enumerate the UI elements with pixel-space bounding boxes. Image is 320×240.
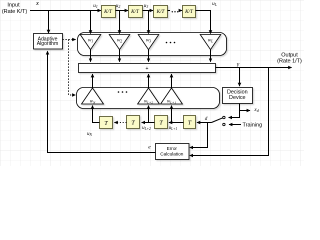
svg-text:wL+2: wL+2 [144,100,153,105]
training input wire [229,124,241,126]
delay box T4 [184,116,196,129]
delay box T2 [127,116,140,129]
wire T4 to T3 [169,122,184,124]
svg-text:Error: Error [167,146,178,151]
wire summer output y line [216,67,292,69]
multiplier w1 [80,35,101,50]
wire w3 to summer [148,50,150,62]
node d label [205,116,208,122]
svg-text:Algorithm: Algorithm [37,41,59,47]
multiplier w3 [138,35,159,50]
wire Z3 to Z4 with ellipsis [168,11,183,13]
input label [2,3,28,16]
delay box Z4 K/T [183,6,196,18]
svg-text:wL+1: wL+1 [167,100,176,105]
wire w1 to summer [90,50,92,62]
node xd label [253,107,258,113]
svg-text:Training: Training [243,122,263,128]
wire decision output to xd [240,104,251,111]
summer bar [79,64,216,73]
wire tap u3 down [148,11,150,34]
node uN label [87,132,93,137]
wire Z4 to wL tap [196,11,211,34]
adaptive algorithm box [34,34,63,50]
wire wL+2 to summer [148,74,150,88]
dashed control wire to feedback taps [69,40,76,96]
delay box T1 [100,117,113,129]
node uL+1 label [169,126,178,131]
switch contacts and arm [212,116,226,125]
wire wN to summer [92,74,94,88]
wire tap u2 down [119,11,121,34]
node u3 label [144,3,149,9]
output label [277,53,302,65]
svg-text:uL+2: uL+2 [142,126,151,131]
svg-text:x: x [35,0,39,7]
error calculation box [156,144,190,160]
multiplier w2 [109,35,130,50]
wire decision branch to switch contact [229,111,240,118]
wire tap uL+1 up [171,106,173,123]
svg-text:Device: Device [229,95,245,101]
decision device box [223,88,253,104]
feedback taps container [77,88,220,109]
multiplier wL [200,35,221,50]
svg-text:d: d [205,116,208,122]
feedback multiplier wN [82,88,104,105]
delay box Z3 K/T [154,6,168,18]
wire wL+1 to summer [171,74,173,88]
feedback multiplier wL+1 [161,88,183,105]
node u2 label [116,3,121,9]
wire e to adaptive algorithm [48,51,156,152]
svg-text:Calculation: Calculation [160,152,184,157]
node uL+2 label [142,126,151,131]
wire wL to summer [210,50,212,62]
wire T2 to T1 dotted [114,122,126,124]
delay box Z1 K/T [102,6,116,18]
wire T3 to T2 [142,122,155,124]
svg-text:y: y [236,62,240,68]
svg-text:+: + [146,66,149,72]
node y label [236,62,240,68]
node u1 label [93,3,98,9]
svg-text:uL+1: uL+1 [169,126,178,131]
delay box Z2 K/T [129,6,143,18]
svg-text:K/T: K/T [130,9,140,15]
delay box T3 [155,116,168,129]
node uL label [212,1,217,7]
wire tap uL+2 up [148,106,150,123]
wire d branch to error calculation [190,123,208,148]
svg-text:K/T: K/T [156,9,166,15]
wire Z2 to Z3 [143,10,154,12]
dashed control wire to feedforward taps [63,39,76,41]
wire tap u1 down [90,11,92,34]
wire w2 to summer [119,50,121,62]
ellipsis between wN and wL+2 [118,91,128,93]
feedforward taps container [78,33,227,56]
svg-text:K/T: K/T [103,9,113,15]
wire y branch to error calculation [190,68,269,156]
svg-text:(Rate K/T): (Rate K/T) [2,9,28,15]
svg-text:uN: uN [87,132,93,137]
ellipsis between w3 and wL [166,42,176,44]
node e label [148,144,151,150]
training label [243,122,263,128]
svg-text:K/T: K/T [184,9,194,15]
wire y down to decision device [239,68,241,87]
feedback multiplier wL+2 [138,88,160,105]
wire tap uN up [93,106,100,123]
svg-text:Input: Input [7,3,20,9]
wire d line into T4 [197,122,212,124]
node x label [35,0,39,7]
svg-text:(Rate 1/T): (Rate 1/T) [277,58,302,64]
wire tap to adaptive algorithm [48,11,50,34]
wire Z1 to Z2 [116,10,129,12]
wire input line to first delay [30,10,101,12]
svg-text:wN: wN [90,100,96,105]
